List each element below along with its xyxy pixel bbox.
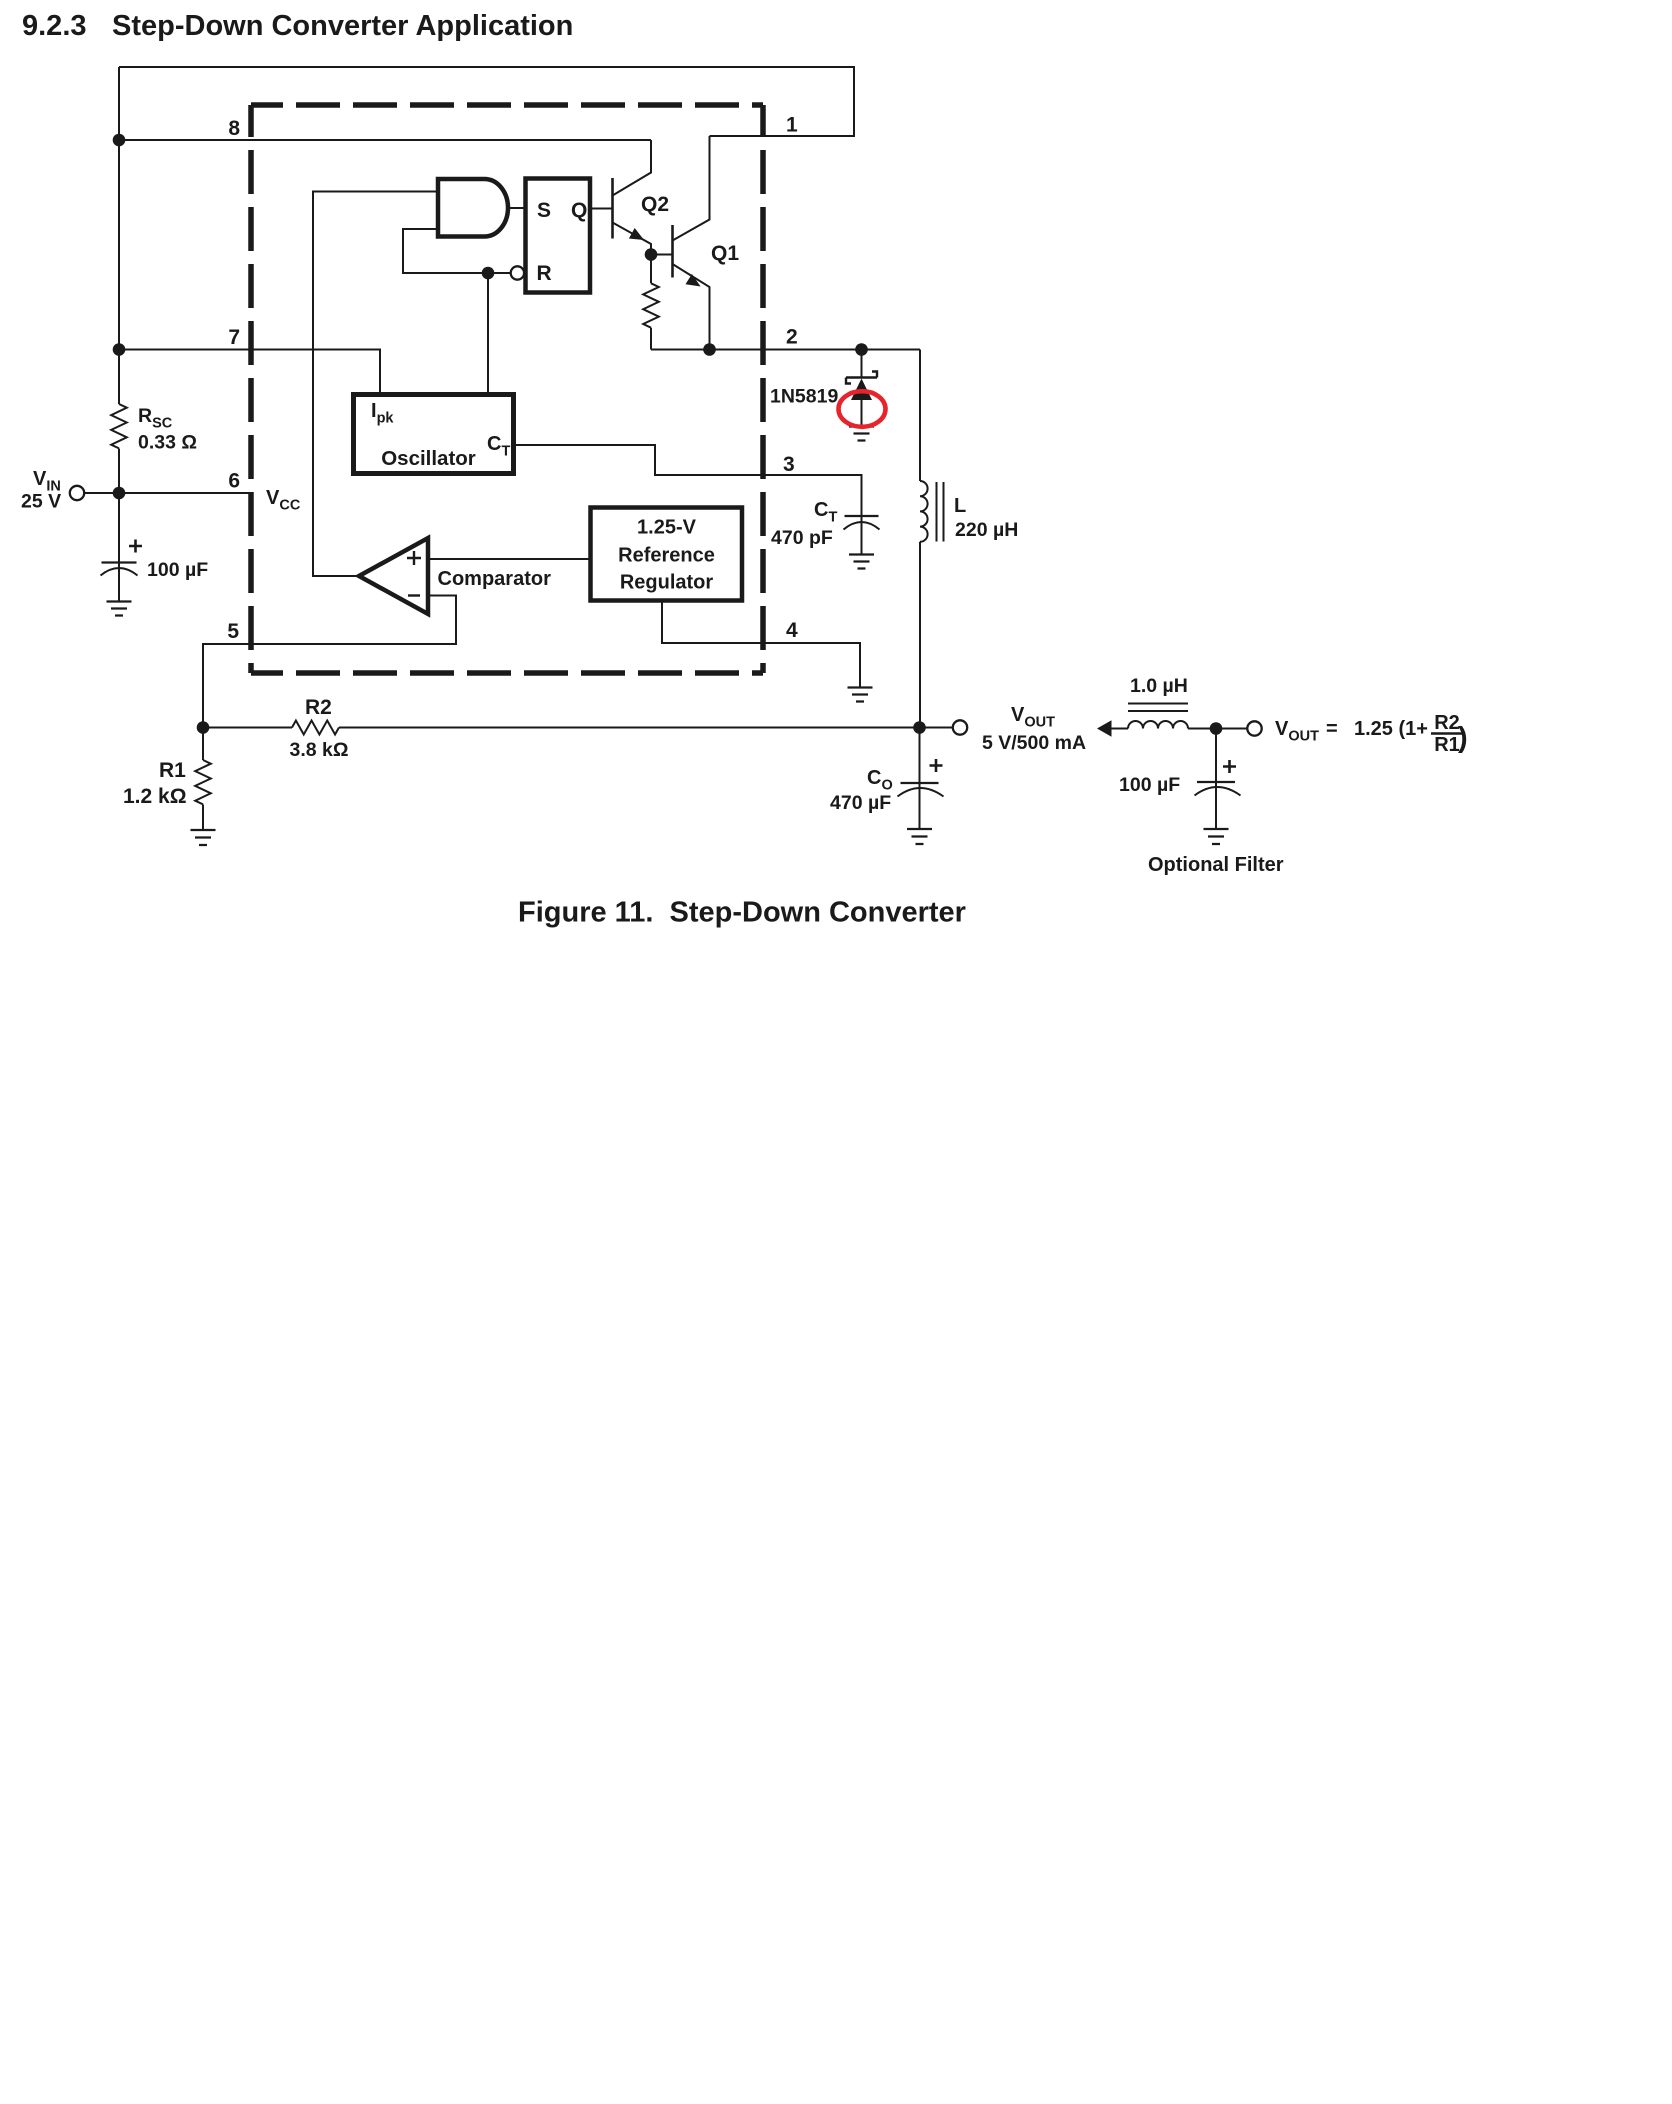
diode 1N5819 schottky cathode bar (846, 372, 877, 384)
ground: filter cap (1204, 829, 1229, 844)
resistor R2 zigzag (292, 721, 339, 735)
ground: diode cathode (849, 427, 874, 441)
svg-text:5: 5 (227, 620, 239, 643)
svg-text:R1: R1 (1434, 734, 1460, 756)
svg-text:4: 4 (786, 619, 798, 642)
junction: rail pin 6 VIN (113, 487, 126, 500)
terminal: filter VOUT (1247, 721, 1261, 735)
svg-text:3: 3 (783, 453, 795, 476)
wire: top loop from rail to pin 1 (119, 67, 854, 136)
wire: pin 2 switch emitter (651, 349, 920, 351)
svg-text:1.0 µH: 1.0 µH (1130, 675, 1188, 697)
svg-text:100 µF: 100 µF (147, 559, 208, 581)
svg-text:Q1: Q1 (711, 242, 739, 265)
AND gate (438, 179, 508, 237)
wire: CO stems (919, 728, 921, 830)
input cap plus sign (129, 540, 142, 553)
svg-text:): ) (1458, 722, 1468, 754)
transistor Q2 bar (611, 178, 614, 239)
junction: diode node pin 2 (855, 343, 868, 356)
ground: R1 (191, 830, 216, 845)
red annotation ellipse (839, 391, 886, 427)
wire: inductor L top lead (919, 350, 921, 482)
svg-text:R2: R2 (1434, 712, 1460, 734)
capacitor CT plates (845, 515, 879, 517)
wire: pin 5 feedback comparator inverting input (203, 596, 456, 728)
junction: rail pin 8 (113, 134, 126, 147)
wire: VIN rail left vertical (above RSC) (118, 67, 120, 404)
svg-text:0.33 Ω: 0.33 Ω (138, 432, 197, 454)
svg-text:2: 2 (786, 326, 798, 349)
svg-text:1: 1 (786, 114, 798, 137)
svg-text:470 pF: 470 pF (771, 527, 833, 549)
comparator plus sign (407, 551, 421, 565)
wire: comparator noninverting input to reference (428, 558, 591, 560)
wire: diode anode stem (861, 350, 863, 378)
wire: Q2 emitter (613, 223, 652, 255)
transistor Q1 bar (671, 225, 674, 278)
svg-text:Q2: Q2 (641, 193, 669, 216)
svg-text:1.25 (1+: 1.25 (1+ (1354, 718, 1428, 740)
wire: pin 3 timing capacitor (516, 445, 862, 516)
junction: Q2 emitter Q1 base (645, 248, 658, 261)
filter cap plus sign (1223, 760, 1236, 773)
svg-text:1N5819: 1N5819 (770, 386, 838, 408)
transistor Q1 emitter arrow (686, 274, 701, 287)
diode 1N5819 triangle (851, 379, 872, 401)
svg-text:Optional Filter: Optional Filter (1148, 854, 1284, 876)
svg-text:Oscillator: Oscillator (381, 447, 476, 470)
inductor L coil (920, 481, 928, 542)
wire: Q1 emitter to pin 2 (673, 264, 710, 350)
resistor RSC zigzag (111, 404, 127, 448)
capacitor CO plates (901, 782, 939, 784)
ground: input cap (107, 602, 132, 616)
wire: pin 6 VCC input (85, 492, 252, 494)
wire: Q1 collector to pin 1 (673, 136, 710, 241)
wire: internal resistor stems (650, 255, 652, 350)
wire: AND output to latch S (508, 207, 526, 209)
transistor Q2 emitter arrow (629, 228, 644, 240)
latch R inverting bubble (511, 266, 524, 279)
svg-text:S: S (537, 199, 551, 222)
svg-text:220 µH: 220 µH (955, 519, 1018, 541)
filter capacitor 100uF plates (1197, 781, 1235, 783)
junction: output node (913, 721, 926, 734)
wire: feedback node to R2 (203, 727, 292, 729)
ground: CT cap (849, 555, 874, 569)
terminal: VOUT (953, 720, 967, 734)
comparator triangle (359, 538, 428, 614)
svg-text:5 V/500 mA: 5 V/500 mA (982, 732, 1086, 754)
IC package dashed boundary (251, 105, 763, 673)
wire: R1 stems (202, 728, 204, 831)
wire: R2 to output node and VOUT terminal (339, 727, 953, 729)
oscillator box (354, 395, 514, 474)
inductor L core lines (937, 482, 944, 542)
svg-text:6: 6 (228, 470, 240, 493)
capacitor 100uF input plates (102, 561, 137, 563)
svg-text:Comparator: Comparator (438, 568, 552, 590)
junction: Q1 emitter pin 2 (703, 343, 716, 356)
junction: filter output node (1210, 722, 1223, 735)
svg-text:R2: R2 (305, 696, 332, 719)
wire: pin 7 Ipk sense to oscillator (119, 350, 380, 395)
resistor R1 zigzag (195, 760, 211, 804)
ground: pin 4 (848, 688, 873, 702)
wire: diode cathode stem to ground (861, 400, 863, 427)
wire: AND gate lower input to latch R (403, 229, 511, 273)
svg-text:8: 8 (228, 117, 240, 140)
1.25-V reference regulator box (591, 508, 743, 601)
wire: comparator output to AND gate input (313, 192, 438, 577)
latch S-R box (526, 179, 591, 293)
junction: feedback divider node (197, 721, 210, 734)
svg-text:=: = (1326, 718, 1338, 740)
wire: inductor L bottom lead to output node (919, 542, 921, 728)
wire: pin 4 ground return (662, 603, 860, 688)
wire: Q latch output to Q2 base (591, 208, 613, 210)
wire: filter cap stems (1215, 729, 1217, 830)
wire: R node to oscillator (487, 273, 489, 395)
arrow: VOUT feed (1097, 720, 1112, 736)
internal base resistor zigzag (643, 283, 659, 327)
svg-text:25 V: 25 V (21, 491, 61, 513)
filter inductor coil (1128, 721, 1188, 728)
svg-text:R1: R1 (159, 759, 186, 782)
svg-text:L: L (954, 495, 966, 517)
wire: Q2 collector riser (613, 140, 652, 196)
wire: input cap stem to ground (118, 564, 120, 602)
formula fraction bar (1431, 732, 1463, 734)
wire: filter inductor leads (1111, 728, 1248, 730)
terminal: VIN (70, 486, 84, 500)
wire: Q1 base (651, 254, 673, 256)
svg-text:Figure 11. Step-Down Converte: Figure 11. Step-Down Converter (518, 897, 966, 929)
svg-text:470 µF: 470 µF (830, 792, 891, 814)
junction: rail pin 7 (113, 343, 126, 356)
svg-text:1.2 kΩ: 1.2 kΩ (123, 785, 187, 808)
wire: VIN rail left vertical (below RSC to input cap) (118, 449, 120, 563)
comparator minus sign (408, 594, 420, 596)
ground: CO (907, 829, 932, 844)
junction: latch R node (482, 267, 495, 280)
svg-text:Q: Q (571, 199, 587, 222)
svg-text:7: 7 (228, 326, 240, 349)
wire: pin 8 drive collector (119, 139, 651, 141)
CO plus sign (930, 759, 943, 772)
filter inductor core lines (1128, 704, 1188, 712)
svg-text:100 µF: 100 µF (1119, 774, 1180, 796)
wire: CT cap to ground stem (861, 517, 863, 555)
svg-text:R: R (537, 262, 552, 285)
svg-text:3.8 kΩ: 3.8 kΩ (290, 739, 349, 761)
